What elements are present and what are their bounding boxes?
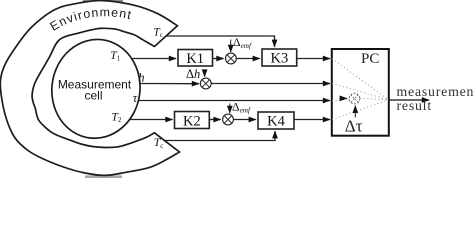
svg-text:Δh: Δh bbox=[186, 67, 200, 81]
svg-text:Δτ: Δτ bbox=[345, 116, 363, 135]
svg-text:measurement: measurement bbox=[397, 84, 474, 99]
svg-text:K4: K4 bbox=[267, 114, 285, 130]
svg-text:K2: K2 bbox=[183, 113, 201, 129]
svg-text:result: result bbox=[397, 98, 432, 113]
svg-text:K1: K1 bbox=[186, 51, 204, 67]
svg-text:τ: τ bbox=[133, 91, 138, 105]
svg-text:h: h bbox=[138, 71, 144, 85]
svg-text:Δemf: Δemf bbox=[233, 35, 252, 50]
svg-text:PC: PC bbox=[361, 51, 379, 67]
svg-text:Δemf: Δemf bbox=[232, 99, 251, 114]
svg-text:cell: cell bbox=[84, 88, 102, 102]
svg-text:K3: K3 bbox=[271, 51, 289, 67]
